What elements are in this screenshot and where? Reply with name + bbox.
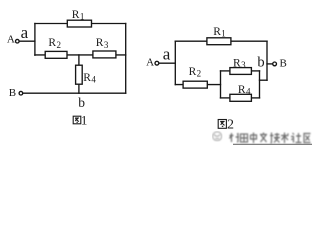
svg-text:A: A xyxy=(146,56,154,68)
svg-text:B: B xyxy=(9,87,16,99)
wire: middle row through R2 R3 xyxy=(35,54,126,56)
中 xyxy=(251,133,257,144)
svg-text:a: a xyxy=(163,45,171,64)
svg-text:b: b xyxy=(78,95,85,110)
wire: bottom side from B xyxy=(23,92,126,94)
resistor R2 (fig.1) xyxy=(45,51,67,58)
watermark logo circle xyxy=(213,132,222,141)
wire: terminal B lead (fig.2) xyxy=(267,63,272,65)
wire: left vertical (fig.2) xyxy=(174,41,176,84)
terminal B (fig.2) xyxy=(273,62,277,66)
wire: terminal A lead xyxy=(19,40,35,42)
技 xyxy=(270,133,280,144)
resistor R1 (fig.2) xyxy=(207,38,231,45)
caption 图2 : hand-drawn hanzi 图 xyxy=(218,120,226,129)
svg-text:R4: R4 xyxy=(238,84,251,97)
svg-text:A: A xyxy=(7,34,15,46)
resistor R3 (fig.2) xyxy=(230,68,252,75)
svg-text:B: B xyxy=(280,58,287,70)
terminal A (fig.2) xyxy=(155,61,159,65)
resistor R3 (fig.1) xyxy=(93,51,116,58)
svg-text:R4: R4 xyxy=(83,72,96,85)
svg-text:b: b xyxy=(257,54,264,70)
wire: right vertical upper (fig.2) xyxy=(266,41,268,80)
wire: right vertical xyxy=(125,24,127,94)
watermark text 村田中文技术社区 (hand-drawn, blurred grey) xyxy=(230,133,311,144)
文 xyxy=(260,133,267,143)
svg-text:a: a xyxy=(21,23,29,42)
svg-text:R1: R1 xyxy=(213,26,226,39)
村 xyxy=(230,133,240,142)
svg-text:R3: R3 xyxy=(96,37,109,50)
wire: parallel block right vertical (fig.2) xyxy=(259,71,261,98)
wire: top side with R1 xyxy=(35,23,126,25)
社 xyxy=(291,133,302,143)
svg-text:2: 2 xyxy=(227,118,234,133)
svg-text:R2: R2 xyxy=(48,37,61,50)
resistor R2 (fig.2) xyxy=(183,81,207,88)
wire: R2 row (fig.2) xyxy=(175,84,220,86)
wire: R4 bottom lead xyxy=(78,84,80,93)
svg-text:1: 1 xyxy=(81,112,88,127)
terminal A (fig.1) xyxy=(15,39,19,43)
wire: left vertical xyxy=(34,24,36,56)
resistor R4 (fig.2) xyxy=(230,94,252,101)
caption 图1 : hand-drawn hanzi 图 xyxy=(73,116,81,124)
wire: parallel block left vertical (fig.2) xyxy=(220,71,222,98)
wire: terminal A lead (fig.2) xyxy=(159,62,176,64)
wire: R4 branch leads (fig.2) xyxy=(221,97,231,99)
resistor R1 (fig.1) xyxy=(67,20,91,27)
svg-text:R2: R2 xyxy=(189,66,202,79)
wire: jog joining block to right vertical (fig.2) xyxy=(260,79,268,81)
svg-text:R1: R1 xyxy=(72,9,85,22)
wire: top side with R1 (fig.2) xyxy=(175,40,267,42)
术 xyxy=(281,133,289,144)
terminal B (fig.1) xyxy=(19,91,23,95)
watermark underline xyxy=(233,143,312,145)
wire: R3 branch leads (fig.2) xyxy=(221,70,231,72)
resistor R4 (fig.1, vertical) xyxy=(76,65,83,84)
区 xyxy=(304,134,311,143)
svg-text:R3: R3 xyxy=(233,57,246,70)
wire: R4 top lead xyxy=(78,55,80,65)
田 xyxy=(241,134,248,142)
